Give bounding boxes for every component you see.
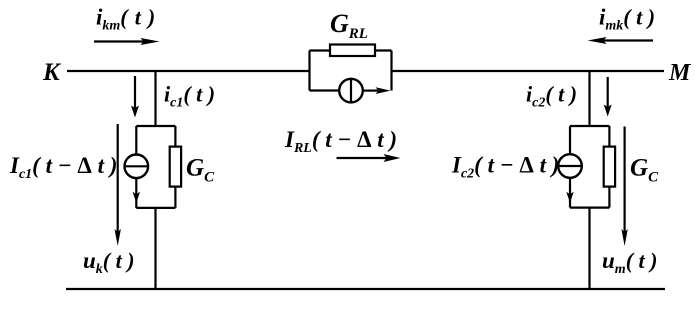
resistor G_RL [310, 45, 392, 57]
wire left box bottom edge [136, 207, 175, 209]
arrow i_km direction [94, 38, 160, 45]
arrow I_RL direction [337, 154, 401, 162]
arrow u_k voltage [115, 124, 121, 246]
wire right box to bottom bus [588, 208, 590, 289]
svg-text:M: M [668, 60, 692, 86]
wire drop from K bus to left box [154, 71, 156, 126]
resistor G_C right [604, 126, 615, 208]
svg-text:K: K [42, 59, 62, 86]
current source I_c2 (circle with bar and down arrow) [558, 126, 582, 208]
arrow u_m voltage [621, 127, 627, 247]
wire left box top edge [136, 125, 175, 127]
resistor G_C left [170, 126, 181, 208]
wire right box top edge [570, 125, 609, 127]
wire top bus left (K to G_RL box) [67, 70, 310, 72]
arrow i_c2 direction [604, 77, 612, 117]
wire G_RL box right edge [390, 51, 392, 91]
current source I_c1 (circle with bar and down arrow) [125, 126, 149, 208]
current source I_RL (history source in G_RL branch) [310, 79, 391, 103]
arrow i_mk direction [588, 37, 654, 44]
svg-text:uk( t ): uk( t ) [83, 248, 135, 277]
wire drop from M bus to right box [588, 71, 590, 126]
wire top bus right (G_RL box to M) [392, 70, 665, 72]
wire left box to bottom bus [154, 208, 156, 289]
svg-text:um( t ): um( t ) [602, 248, 657, 277]
wire bottom bus [66, 288, 665, 290]
wire G_RL box left edge [308, 51, 310, 91]
arrow i_c1 direction [131, 76, 139, 118]
wire right box bottom edge [570, 207, 609, 209]
